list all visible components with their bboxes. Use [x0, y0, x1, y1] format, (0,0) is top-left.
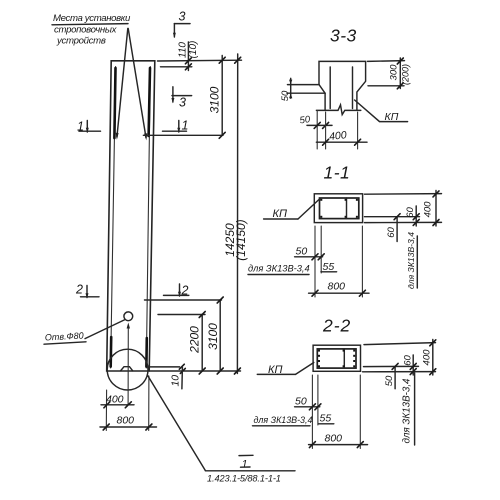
detail circle around column foot — [107, 349, 148, 390]
svg-text:(10): (10) — [188, 41, 199, 59]
hole level extension line — [158, 314, 205, 316]
bottom dims (1-1) — [314, 226, 316, 297]
svg-text:3100: 3100 — [206, 323, 220, 350]
svg-text:10: 10 — [169, 375, 181, 387]
inner rectangle — [320, 198, 359, 219]
svg-text:400: 400 — [421, 349, 432, 366]
svg-text:2: 2 — [75, 283, 83, 297]
rebar line left (thin full) — [111, 67, 116, 369]
rebar thick bottom-left — [109, 337, 112, 367]
svg-text:300: 300 — [389, 64, 400, 81]
divider — [343, 349, 345, 368]
right edge extension down — [148, 376, 150, 431]
svg-text:3100: 3100 — [207, 86, 221, 113]
svg-text:50: 50 — [384, 375, 395, 386]
bottom cut line with break — [316, 105, 360, 115]
svg-text:55: 55 — [320, 413, 332, 425]
svg-text:3-3: 3-3 — [330, 26, 357, 46]
leader V left leg — [117, 29, 128, 138]
hole centre line with up arrow — [127, 325, 129, 405]
110-level extension line — [161, 66, 192, 68]
svg-text:400: 400 — [423, 201, 434, 218]
svg-text:(200): (200) — [401, 64, 411, 85]
svg-text:800: 800 — [325, 433, 343, 445]
rebar thick top-left — [114, 68, 115, 138]
svg-text:400: 400 — [106, 394, 124, 406]
rebar thick bottom-right — [145, 338, 148, 367]
10-level extension line — [150, 366, 180, 368]
svg-text:для ЗК13В-3,4: для ЗК13В-3,4 — [248, 264, 310, 274]
dimension line 800 — [100, 426, 157, 428]
leader V right leg — [128, 29, 146, 138]
detail number 1 — [239, 454, 253, 456]
svg-text:400: 400 — [329, 129, 348, 143]
svg-text:для ЗК13В-3,4: для ЗК13В-3,4 — [254, 415, 313, 425]
rebar dots — [320, 199, 358, 218]
svg-text:Места установки: Места установки — [53, 13, 131, 24]
3100-level extension line (slinging point) — [143, 134, 223, 136]
svg-text:1.423.1-5/88.1-1-1: 1.423.1-5/88.1-1-1 — [207, 474, 281, 484]
bottom edge extension line to right dimension lines — [149, 370, 240, 372]
hole circle (Отв. Ф80) — [124, 312, 133, 321]
svg-text:50: 50 — [296, 246, 308, 258]
dimension line 14250 overall — [236, 54, 238, 374]
left edge extension down — [105, 390, 107, 431]
svg-text:2-2: 2-2 — [322, 316, 351, 336]
bottom-left dim 50 — [316, 110, 318, 149]
rebar thick top-right — [149, 68, 150, 136]
КП leader (3-3) — [355, 100, 408, 122]
2-2 level extension line — [145, 299, 222, 301]
rebar line right (thin full) — [146, 67, 150, 369]
svg-text:для ЗК13В-3,4: для ЗК13В-3,4 — [406, 232, 416, 289]
svg-text:Отв.Ф80: Отв.Ф80 — [45, 330, 84, 342]
svg-text:устройств: устройств — [56, 35, 106, 46]
svg-text:60: 60 — [405, 207, 416, 218]
svg-text:800: 800 — [328, 281, 346, 293]
bottom dim 400 (3-3) — [325, 112, 327, 149]
svg-text:3: 3 — [179, 10, 186, 24]
svg-text:3: 3 — [179, 96, 186, 110]
dimension line 3100 bottom — [219, 300, 221, 371]
detail label line — [205, 470, 295, 472]
bottom notch trapezoid — [121, 367, 133, 371]
socket outline — [319, 61, 366, 110]
right dims (1-1) — [365, 193, 442, 196]
left dim 50 vertical — [288, 84, 320, 86]
svg-text:строповочных: строповочных — [54, 24, 118, 35]
divider — [346, 198, 348, 219]
svg-text:для ЗК13В-3,4: для ЗК13В-3,4 — [402, 378, 413, 444]
inner rectangle — [317, 349, 356, 368]
socket inner wall left — [329, 67, 331, 109]
svg-text:60: 60 — [402, 355, 413, 366]
svg-text:2200: 2200 — [188, 326, 202, 354]
svg-text:КП: КП — [385, 111, 399, 123]
svg-text:КП: КП — [273, 208, 287, 220]
right dim 300/(200) — [368, 60, 405, 63]
detail leader diagonal — [148, 375, 206, 470]
socket inner wall right — [352, 67, 354, 109]
right dims (2-2) — [364, 343, 436, 345]
svg-text:1-1: 1-1 — [324, 163, 351, 183]
dimension line 2200 — [201, 315, 203, 372]
column outline — [107, 61, 155, 371]
outer rectangle — [314, 194, 362, 223]
dimension line 400 — [101, 404, 134, 406]
svg-text:50: 50 — [280, 90, 291, 101]
hole leader line — [85, 320, 124, 339]
svg-text:60: 60 — [386, 227, 397, 238]
header underline — [52, 24, 128, 25]
bottom dims (2-2) — [311, 375, 313, 449]
svg-text:50: 50 — [295, 396, 307, 408]
svg-text:800: 800 — [117, 415, 135, 427]
svg-text:110: 110 — [178, 42, 189, 58]
svg-text:1: 1 — [242, 459, 248, 471]
svg-text:1: 1 — [182, 119, 189, 133]
top edge extension line — [158, 59, 242, 62]
dimension line 110 — [187, 42, 189, 71]
rebar dots — [318, 350, 355, 368]
outer rectangle — [313, 345, 360, 371]
svg-text:(14150): (14150) — [234, 219, 248, 260]
dimension line 3100 top — [221, 56, 223, 136]
